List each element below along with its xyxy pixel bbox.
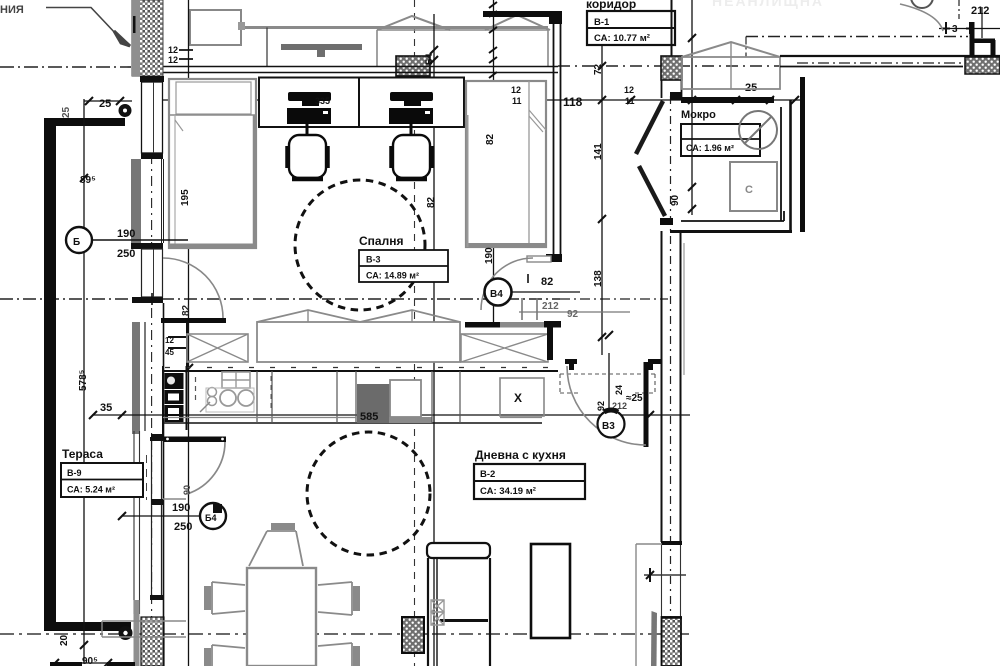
kitchen upper X-box 2 cross <box>461 334 548 362</box>
desk 1 monitor stand <box>302 101 319 106</box>
upper room divider x267 <box>266 28 268 67</box>
chair 1 armrest right <box>326 146 330 168</box>
tick x609 y335 <box>605 331 613 339</box>
kitchen cabinet diagonal <box>200 402 210 412</box>
axis line B right segment y299 <box>560 298 668 300</box>
desk divider <box>358 78 360 128</box>
kitchen faucet circles <box>208 388 217 397</box>
svg-text:82: 82 <box>426 196 437 208</box>
window W3 mid cap <box>151 499 163 505</box>
door B3 swing arc <box>567 366 646 445</box>
svg-text:578⁵: 578⁵ <box>78 369 89 391</box>
tick x602 y219 <box>598 215 606 223</box>
left wall corner cap at kitchen counter <box>151 434 164 441</box>
dim line y292 bedroom <box>497 291 580 293</box>
bed 2 blanket edge <box>528 81 530 247</box>
corridor wall corner cap <box>670 92 682 100</box>
mokro outer bottom wall <box>670 230 792 233</box>
door B3 leaf <box>644 362 649 447</box>
chair 2 back <box>396 177 427 182</box>
chair 1 back <box>292 177 323 182</box>
top right inner wall line <box>780 66 963 68</box>
kitchen divider x432 <box>431 371 433 423</box>
leader arrowhead <box>114 31 130 46</box>
chair 2 armrest right <box>430 146 434 168</box>
kitchen oven box 2 <box>165 405 184 422</box>
upper room bed corner mark <box>238 22 245 30</box>
kitchen dishwasher gray base <box>389 417 432 423</box>
living right wall outer line <box>661 231 663 542</box>
bedroom right wall bottom cap <box>546 254 562 262</box>
dim line y516 terrace <box>122 515 202 517</box>
axis marker B4 terrace circle <box>200 503 226 529</box>
svg-text:Тераса: Тераса <box>62 447 103 461</box>
passage header bar black right <box>544 321 561 328</box>
chamfer wall lower diagonal <box>639 166 665 216</box>
svg-text:Б4: Б4 <box>424 54 434 65</box>
axis vertical dashed x414.5 <box>414 0 416 666</box>
mokro wardrobe body <box>682 57 780 89</box>
kitchen tall unit top box circle <box>167 377 175 385</box>
chair 2 stem <box>410 124 413 135</box>
mokro wardrobe gable <box>682 42 780 57</box>
tick y100 x528 <box>524 96 532 104</box>
svg-text:С: С <box>745 184 753 196</box>
window W3 dashes <box>146 455 148 500</box>
living table box <box>474 464 585 499</box>
passage header bar gray <box>500 322 544 328</box>
tick x93 y415 <box>89 411 97 419</box>
chair 1 seat <box>289 135 326 178</box>
svg-text:335: 335 <box>315 96 330 106</box>
top right door knob circle <box>911 0 933 8</box>
bedroom table box <box>359 250 448 282</box>
desk 2 keyboard white notch <box>425 111 430 114</box>
dining chair bottom-left body <box>212 645 245 666</box>
mokro top wall bar <box>681 97 774 103</box>
terrace wall bottom bar <box>44 622 131 631</box>
svg-text:В3: В3 <box>602 421 615 432</box>
corridor right wall line upper <box>671 0 673 56</box>
window W1 frame <box>142 82 163 153</box>
svg-text:190: 190 <box>172 502 190 514</box>
dining chair top back <box>271 523 295 530</box>
kitchen faucet circle 2 <box>208 397 217 406</box>
tick x122 y415 <box>118 411 126 419</box>
leader line <box>46 8 117 36</box>
svg-text:≈25: ≈25 <box>626 393 643 404</box>
left wall hatched block top <box>132 0 163 76</box>
bed in upper room <box>190 10 241 45</box>
axis top-right wall centerline y63 <box>797 62 963 64</box>
window W1 glass line <box>153 82 155 153</box>
opening jamb right L <box>648 359 661 370</box>
dim main horizontal line y100 <box>163 99 800 101</box>
top right door frame beam <box>974 39 995 44</box>
dim vertical line x692 <box>691 0 693 215</box>
kitchen sink unit <box>222 372 250 388</box>
svg-text:Б: Б <box>73 237 80 248</box>
kitchen oven 2 white slot <box>168 408 179 414</box>
axis top-right horizontal dash-dot y36.5 <box>746 36 968 38</box>
top right door frame left post <box>970 22 975 57</box>
kitchen oven 2 white slot b <box>168 416 179 420</box>
terrace axis marker bottom white dot <box>123 631 127 635</box>
bedroom door swing arc <box>163 258 223 318</box>
mokro inner bottom wall <box>681 220 784 222</box>
living table divider <box>474 480 585 482</box>
tick y100 x631 <box>627 96 635 104</box>
sofa body outline <box>428 558 490 666</box>
tick x493 y173.5 <box>489 169 497 177</box>
wall pier hatched living <box>402 617 424 653</box>
bed 1 thick right edge <box>253 115 257 247</box>
passage header bar black left <box>465 322 500 328</box>
kitchen upper X-box 2 <box>461 334 548 362</box>
svg-text:138: 138 <box>593 270 604 287</box>
terrace door hinge dots <box>166 438 169 441</box>
kitchen upper X-box 1 cross <box>187 334 248 362</box>
corridor table divider <box>587 27 675 29</box>
axis line B bedroom dash-dot y299 <box>0 298 560 300</box>
kitchen divider x272 <box>271 371 273 423</box>
dining chair bottom-right body <box>318 643 352 666</box>
sofa cushion hatch square 1 <box>431 600 444 612</box>
coffee table black rect <box>531 544 570 638</box>
svg-text:11: 11 <box>512 96 522 106</box>
svg-text:24: 24 <box>614 385 624 395</box>
svg-text:Спалня: Спалня <box>359 234 403 248</box>
dining chair left body <box>212 582 245 614</box>
tick x493 y99 <box>489 95 497 103</box>
left wall gray pier mid <box>131 159 141 243</box>
dim tick x84 y178 <box>80 174 88 182</box>
right duct gray box <box>636 544 662 666</box>
tick y415 x650 <box>646 411 654 419</box>
svg-text:118: 118 <box>563 95 583 109</box>
kitchen dim text small ticks left <box>168 337 186 348</box>
tick y100 x795 <box>791 96 799 104</box>
bedroom top wall double line <box>163 67 558 73</box>
svg-text:В4: В4 <box>490 289 503 300</box>
top right leader line x982 <box>981 7 983 38</box>
svg-text:СА: 34.19 м²: СА: 34.19 м² <box>480 486 536 497</box>
sofa backrest <box>427 543 490 558</box>
kitchen divider x356 <box>355 371 357 423</box>
svg-text:212: 212 <box>542 301 559 312</box>
left wall inner face lines mid <box>162 159 164 243</box>
kitchen wardrobe gable 2 <box>360 310 460 322</box>
chair 1 stem <box>306 124 309 135</box>
svg-text:195: 195 <box>180 189 191 206</box>
kitchen sink cross <box>222 372 250 388</box>
chamfer wall lower cap <box>660 218 673 225</box>
left wall kitchen inner line x145 <box>144 322 146 431</box>
desk band outline <box>259 78 464 128</box>
bed 2 thick left edge <box>467 115 469 247</box>
svg-text:12: 12 <box>168 55 178 65</box>
bedroom door 2 leaf <box>527 256 551 262</box>
svg-text:212: 212 <box>971 5 989 17</box>
window W2 glass line <box>153 249 155 297</box>
kitchen stove burner 2 <box>238 390 254 406</box>
axis marker B4 terrace dark tick <box>213 504 222 513</box>
left wall cap above window W2 <box>131 243 163 249</box>
axis tick x152 y299 <box>151 293 153 305</box>
svg-text:В-9: В-9 <box>67 468 82 478</box>
left wall inner face stub above door <box>163 303 165 318</box>
bed 2 thick bottom edge <box>466 243 546 247</box>
corridor wall below pier <box>662 80 682 98</box>
tick y575 x650 <box>646 568 654 582</box>
svg-text:72: 72 <box>593 63 604 75</box>
left wall gray strip bottom <box>134 600 140 666</box>
svg-text:Б4: Б4 <box>205 513 216 523</box>
svg-text:250: 250 <box>174 521 192 533</box>
kitchen counter left edge <box>162 366 164 434</box>
living right wall cap y542 <box>661 541 682 545</box>
tick y100 x483 <box>479 96 487 104</box>
axis line C living dash-dot y634 gray <box>0 633 692 635</box>
mokro inner corner line <box>783 211 785 221</box>
terrace table box <box>61 463 143 497</box>
dim line y28.5 top right <box>939 28 1000 30</box>
kitchen wardrobe gable 1 <box>257 310 360 322</box>
tick x84 y645 <box>80 641 88 649</box>
svg-text:585: 585 <box>360 411 378 423</box>
left wall cap below window W2 <box>132 297 163 303</box>
floor level bar 2 <box>107 662 135 666</box>
svg-text:190: 190 <box>484 247 495 264</box>
svg-text:82: 82 <box>541 276 553 288</box>
svg-text:141: 141 <box>593 143 604 160</box>
top right door arc <box>900 4 943 31</box>
kitchen tall wardrobe box <box>257 322 460 362</box>
kitchen X cell box <box>500 378 544 416</box>
dashed niche rect <box>560 374 655 393</box>
mokro wardrobe centerline <box>730 42 732 89</box>
TV stand stub <box>317 50 325 57</box>
svg-text:92: 92 <box>567 309 579 320</box>
tick y28.5 x970 <box>966 22 974 34</box>
chair 2 armrest left <box>389 146 393 168</box>
kitchen divider x460 <box>459 371 461 423</box>
dim line y101 top-left 25 <box>84 100 132 102</box>
wardrobe upper room zigzag right <box>485 15 550 30</box>
bedroom dashed circle <box>295 180 425 310</box>
dining chair bottom-left back <box>204 648 211 666</box>
dim vertical line x602 <box>601 45 603 355</box>
tick y100 x770 <box>766 96 774 104</box>
terrace table divider <box>61 479 143 481</box>
top right door frame right post <box>991 40 996 57</box>
svg-text:25: 25 <box>745 82 757 94</box>
tick y100 x692 <box>688 96 696 104</box>
dim line y414 main <box>92 414 690 416</box>
kitchen stove outline <box>206 388 254 412</box>
sofa arm inner line <box>436 558 438 666</box>
svg-text:11: 11 <box>625 96 635 106</box>
right wall pier top cap <box>661 616 682 619</box>
tick x692 y187 <box>688 183 696 191</box>
bedroom door 2 swing arc <box>481 258 533 310</box>
bed 1 blanket line <box>169 114 256 116</box>
kitchen divider x337 <box>336 371 338 423</box>
svg-text:В-3: В-3 <box>366 255 381 265</box>
dim gray marks near wall <box>522 298 537 320</box>
terrace axis marker bottom <box>119 626 133 640</box>
axis marker B3 dark cap <box>604 410 618 412</box>
living right wall inner gray line <box>683 243 685 375</box>
terrace wall vertical bar <box>44 118 56 630</box>
opening jamb left L <box>565 359 577 370</box>
wardrobe upper room zigzag left <box>377 16 450 30</box>
svg-text:12: 12 <box>511 85 521 95</box>
axis vertical dash-dot x959 top <box>958 0 960 19</box>
dim vertical line x434 <box>433 14 435 666</box>
bed 1 thick bottom edge <box>169 244 256 248</box>
kitchen sink dark unit <box>357 384 390 423</box>
tick x434 y50 <box>430 46 438 54</box>
terrace door hinge dot right <box>221 438 224 441</box>
terrace wall top bar <box>44 118 125 126</box>
chair 1 armrest left <box>285 146 289 168</box>
window W1 bottom cap <box>141 153 163 159</box>
svg-text:СА: 14.89 м²: СА: 14.89 м² <box>366 271 419 281</box>
tick y28.5 x946 <box>942 22 950 34</box>
svg-text:90: 90 <box>182 485 192 495</box>
window W3 outer face lines <box>134 431 140 614</box>
bed 1 fold corner <box>175 120 183 131</box>
mokro room inner walls <box>780 107 782 221</box>
dining chair bottom-right back <box>353 646 360 666</box>
sofa cushion hatch square 2 <box>431 612 444 625</box>
tick y101 x89 <box>85 97 93 105</box>
axis line A horizontal left dash-dot y67 <box>0 66 131 68</box>
svg-text:250: 250 <box>117 248 135 260</box>
svg-text:25: 25 <box>99 98 111 110</box>
tick x602 y66 <box>598 62 606 70</box>
svg-text:НИЯ: НИЯ <box>0 4 24 16</box>
upper room boundary line y27.5 <box>241 26 548 29</box>
kitchen counter bottom edge <box>163 422 542 424</box>
mokro outer right wall <box>789 100 792 232</box>
tick y663 x108 <box>104 659 112 666</box>
bed 1 blanket inner edge <box>174 115 176 244</box>
corridor top wall bar <box>483 11 562 17</box>
terrace door sill gray line <box>163 498 186 500</box>
axis marker B3 circle <box>598 411 625 438</box>
kitchen upper cabinet left cell divider <box>186 322 188 367</box>
svg-text:12: 12 <box>165 336 174 345</box>
tick x189 y115 <box>185 111 193 119</box>
terrace door swing arc <box>187 442 225 494</box>
tick y663 x55 <box>51 659 59 666</box>
svg-text:СА: 1.96 м²: СА: 1.96 м² <box>686 143 734 153</box>
axis marker B4 circle bedroom <box>485 279 512 306</box>
dim vertical line x189 <box>188 0 190 666</box>
svg-text:Мокро: Мокро <box>681 109 716 121</box>
bedroom right wall double line <box>554 17 561 255</box>
dim line y575 right wall <box>644 574 686 576</box>
kitchen oven white slot <box>168 394 179 401</box>
washing machine slash <box>744 116 772 144</box>
hatched pier top center <box>396 56 430 76</box>
svg-text:25: 25 <box>61 106 72 118</box>
kitchen wardrobe gable drops <box>308 310 412 322</box>
dim ticks 12 12 left <box>179 50 193 59</box>
top right outer wall line <box>780 55 1000 57</box>
kitchen counter dashed upper cabinets <box>165 367 555 369</box>
kitchen oven box <box>165 390 184 404</box>
kitchen stove burner 1 <box>220 390 236 406</box>
bedroom door header bar <box>161 318 226 323</box>
dim tick small x528 <box>527 274 529 283</box>
svg-text:коридор: коридор <box>586 0 636 11</box>
svg-text:45: 45 <box>165 348 174 357</box>
mokro table divider <box>681 138 760 140</box>
svg-text:СА: 5.24 м²: СА: 5.24 м² <box>67 485 115 495</box>
axis vertical dashed right wall x670.5 <box>670 96 672 666</box>
sofa seat divider thick <box>440 619 488 622</box>
floor level bar 1 <box>50 662 82 666</box>
dining chair top body <box>249 531 303 566</box>
tick x189 y368 <box>185 364 193 372</box>
kitchen tall unit top box <box>165 373 184 389</box>
corridor table box <box>587 11 675 45</box>
terrace axis marker top <box>119 104 132 117</box>
bed 2 fold corner <box>529 110 546 132</box>
axis line A corridor segment y66 <box>558 65 780 67</box>
desk 1 monitor bar <box>288 92 331 101</box>
mokro table box <box>681 124 760 156</box>
building outer wall bar right of mokro <box>800 77 805 232</box>
right gray wedge <box>651 611 657 666</box>
svg-text:82: 82 <box>485 133 496 145</box>
svg-text:X: X <box>514 391 522 405</box>
svg-text:СА: 10.77 м²: СА: 10.77 м² <box>594 33 650 44</box>
TV sideboard bar upper room <box>281 44 362 50</box>
wardrobe upper room body <box>377 30 548 66</box>
dim line x609 stub <box>608 353 610 411</box>
left wall dark mark in stipple <box>133 16 136 33</box>
svg-text:190: 190 <box>117 228 135 240</box>
svg-text:3: 3 <box>952 24 958 35</box>
desk 2 monitor stand <box>404 101 421 106</box>
living dashed circle <box>307 432 430 555</box>
top right hatched pier <box>965 57 1000 74</box>
svg-text:В-1: В-1 <box>594 17 610 28</box>
living right wall inner line <box>680 231 682 542</box>
axis top-right vertical at x746 <box>745 37 747 58</box>
window W3 bottom cap <box>150 595 164 600</box>
dining chair right body <box>318 582 352 615</box>
left wall inner gray strip top <box>132 0 140 76</box>
kitchen dashed cabinet line <box>195 377 197 400</box>
kitchen divider x257 <box>256 371 258 423</box>
tick y516 x122 <box>118 512 126 520</box>
dining chair left back <box>204 586 211 610</box>
window W3 glass band lines <box>152 441 162 597</box>
kitchen upper X-box 1 <box>187 334 248 362</box>
window W2 frame <box>142 249 163 297</box>
dining chair right back <box>353 586 360 611</box>
desk 2 keyboard block <box>389 108 433 124</box>
tick y101 x120 <box>116 97 124 105</box>
tick x602 y337 <box>598 333 606 341</box>
chair 2 seat <box>393 135 430 178</box>
svg-text:НЕАНЛИЩНА: НЕАНЛИЩНА <box>712 0 824 9</box>
